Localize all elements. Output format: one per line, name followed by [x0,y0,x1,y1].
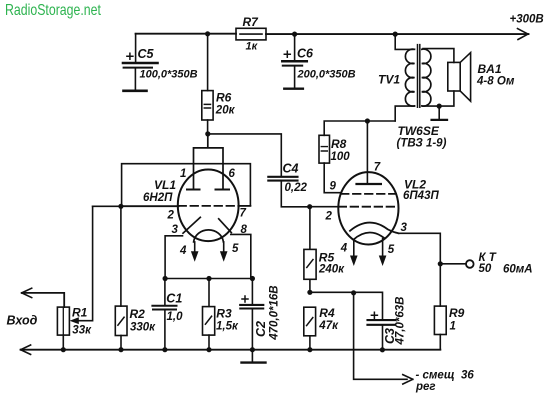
node junction dot R6/rail [205,31,210,36]
tube VL2 heater arc [353,233,384,240]
capacitor C3 electrolytic [368,297,407,350]
svg-text:2: 2 [167,210,175,222]
node junction dot VL1 anode node [205,131,210,136]
svg-text:1к: 1к [246,40,259,52]
svg-text:6: 6 [229,168,236,180]
wire VL1 cathode pin 8 [231,234,251,278]
wire secondary bottom to speaker [423,91,454,106]
svg-text:330к: 330к [130,322,156,334]
node junction dot R5/R4 [307,290,312,295]
resistor R9 [434,264,464,335]
node junction dot VL2 anode [365,118,370,123]
svg-text:1: 1 [450,320,456,332]
svg-text:(ТВЗ 1-9): (ТВЗ 1-9) [397,138,447,150]
wire cathode bus [165,278,252,280]
svg-text:7: 7 [240,207,247,219]
svg-text:R2: R2 [130,307,146,321]
resistor R8 [319,121,367,163]
svg-text:2: 2 [325,211,333,223]
transformer TV1 secondary winding [422,49,431,106]
svg-text:R6: R6 [216,90,232,104]
resistor R5 [304,207,345,280]
tube VL1 cathode left [183,217,200,233]
node junction dot R4/rail [307,347,312,352]
node junction dot TV1/rail [393,31,398,36]
wire anode node to C4 [208,134,281,176]
wire R3 to rail [208,335,210,350]
tube VL2 anode plate [357,183,381,185]
node junction dot bus/C1 [163,276,168,281]
svg-text:+300В: +300В [510,14,544,26]
node junction dot bus/R3 [206,276,211,281]
wire R5 to bias node [309,279,311,292]
wire VL2 cathode pin 3 to test point [399,233,441,263]
ground chassis bar under C6 [284,87,303,89]
node junction dot VL1 grid node [118,204,123,209]
wire grid feed left solid [121,205,179,207]
svg-text:47к: 47к [318,320,339,332]
wire R2 to ground rail [120,336,122,350]
svg-text:33к: 33к [72,325,92,337]
svg-text:- смещ 36: - смещ 36 [416,369,475,381]
wire grid node down to R2 [120,206,122,306]
svg-text:5: 5 [388,244,395,256]
tube VL1 envelope [178,170,239,242]
tube VL2 screen grid dashed [341,193,396,195]
svg-text:200,0*350В: 200,0*350В [297,68,356,80]
input arrow top [22,288,64,307]
wire R9 to rail [439,335,441,350]
svg-text:100: 100 [331,151,351,163]
svg-text:4: 4 [340,243,348,255]
svg-text:C6: C6 [297,47,314,61]
wire rail to R6 [207,34,209,91]
svg-text:20к: 20к [215,105,236,117]
ground chassis bar under TV1 secondary [432,106,447,120]
svg-text:C1: C1 [166,292,182,306]
svg-text:R3: R3 [216,307,232,321]
node junction dot R3/rail [206,347,211,352]
svg-text:3: 3 [401,222,408,234]
capacitor C5 [123,34,198,90]
wire VL2 anode riser pin 7 [366,121,368,183]
svg-text:6Н2П: 6Н2П [143,192,173,204]
wire bias adjust arrow [354,293,475,393]
svg-text:TV1: TV1 [378,73,400,87]
tube VL2 cathode arc [350,223,399,234]
wire top rail right segment with +300V arrow [266,14,544,40]
capacitor C4 [268,161,309,207]
transformer TV1 primary lead top [395,34,413,49]
resistor R4 [304,306,339,336]
node junction dot R2/rail [118,347,123,352]
svg-text:рег: рег [415,381,436,393]
resistor R1 (potentiometer) [57,306,92,337]
node junction dot R1/rail [61,347,66,352]
svg-text:50: 50 [479,263,492,275]
node junction dot C3/rail [380,347,385,352]
transformer TV1 primary winding [405,49,414,106]
tube VL2 heater lead arrow pin 5 [379,239,387,267]
svg-text:R8: R8 [331,137,347,151]
node junction dot secondary ground [437,104,442,109]
wire grid node to R1 wiper riser [93,205,121,207]
wire R6 to anode node [207,120,209,134]
svg-text:R1: R1 [72,306,88,320]
svg-text:60мА: 60мА [503,264,533,276]
svg-text:1: 1 [180,168,186,180]
tube VL1 heater lead arrow pin 4 [191,242,199,262]
resistor R3 [203,279,239,336]
wire R8 to screen grid pin 9 [324,163,340,193]
wire pin 7 to shield right edge [238,205,250,207]
node junction dot cathode/KT [438,261,443,266]
svg-text:5: 5 [232,243,239,255]
svg-text:4: 4 [179,245,187,257]
test point KT [440,252,532,276]
wire top rail left segment [136,33,236,35]
tube VL2 envelope [338,172,398,244]
svg-text:4-8 Ом: 4-8 Ом [476,76,515,88]
wire R4 to rail [309,336,311,350]
ground chassis bar under C2 [242,350,266,363]
svg-text:VL1: VL1 [154,178,176,192]
svg-text:1,0: 1,0 [167,311,184,323]
svg-text:9: 9 [330,181,337,193]
svg-text:C5: C5 [138,47,155,61]
R1 wiper arrowhead [70,317,79,324]
svg-text:0,22: 0,22 [285,182,308,194]
resistor R7 [236,15,266,52]
svg-text:R7: R7 [243,15,260,29]
tube VL1 anode plate left (pin 1) [187,189,200,191]
tube VL1 cathode right [219,219,232,233]
svg-text:TW6SE: TW6SE [398,124,440,138]
wire grid node into tube [310,206,339,208]
tube VL2 control grid dashed [339,206,399,208]
wire ground rail with input arrow [21,345,441,354]
svg-text:1,5к: 1,5к [216,321,239,333]
svg-text:R5: R5 [319,251,335,265]
node junction dot C2/rail [250,347,255,352]
wire R1 to ground rail [62,335,64,350]
resistor R6 [202,90,236,120]
ground chassis bar under C5 [124,90,147,93]
node junction dot C6/rail [292,31,297,36]
wire anode node to TV1 [367,120,395,122]
svg-text:470,0*16В: 470,0*16В [268,285,280,340]
transformer TV1 primary lead bottom [395,106,414,121]
capacitor C6 [282,34,355,88]
capacitor C2 electrolytic [240,279,280,350]
node junction dot C1/rail [162,347,167,352]
tube VL1 grid dashed line [179,205,239,207]
wire secondary top to speaker [423,49,454,63]
speaker BA1 [448,53,515,102]
svg-text:Вход: Вход [7,313,38,327]
svg-text:BA1: BA1 [478,62,502,76]
node junction dot bias tap [351,290,356,295]
tube VL1 anode plate right (pin 6) [216,189,230,191]
svg-text:240к: 240к [318,264,345,276]
svg-text:7: 7 [374,161,381,173]
wire bias node to C3 [310,292,383,319]
tube VL1 heater dome [194,230,224,242]
node junction dot VL2 grid node [307,204,312,209]
tube VL1 heater lead arrow pin 5 [220,242,228,262]
svg-text:100,0*350В: 100,0*350В [140,68,198,80]
transformer TV1 core [418,45,420,108]
svg-text:C2: C2 [254,321,268,337]
tube VL2 heater lead arrow pin 4 [350,240,358,266]
wire VL1 cathode pin 3 [165,236,182,279]
svg-text:6П43П: 6П43П [403,190,439,202]
svg-text:47,0*63В: 47,0*63В [395,297,407,346]
capacitor C1 [152,279,183,350]
node junction dot bus/C2 [250,276,255,281]
resistor R2 [115,306,156,335]
RadioStorage.net logo [5,2,101,20]
tube VL1 anode link [194,134,224,189]
wire R1 wiper riser [77,206,93,320]
tube VL1 shield rectangle [122,164,251,207]
svg-text:C4: C4 [283,161,299,175]
svg-text:R4: R4 [319,306,335,320]
svg-text:3: 3 [172,224,179,236]
svg-text:R9: R9 [449,306,465,320]
